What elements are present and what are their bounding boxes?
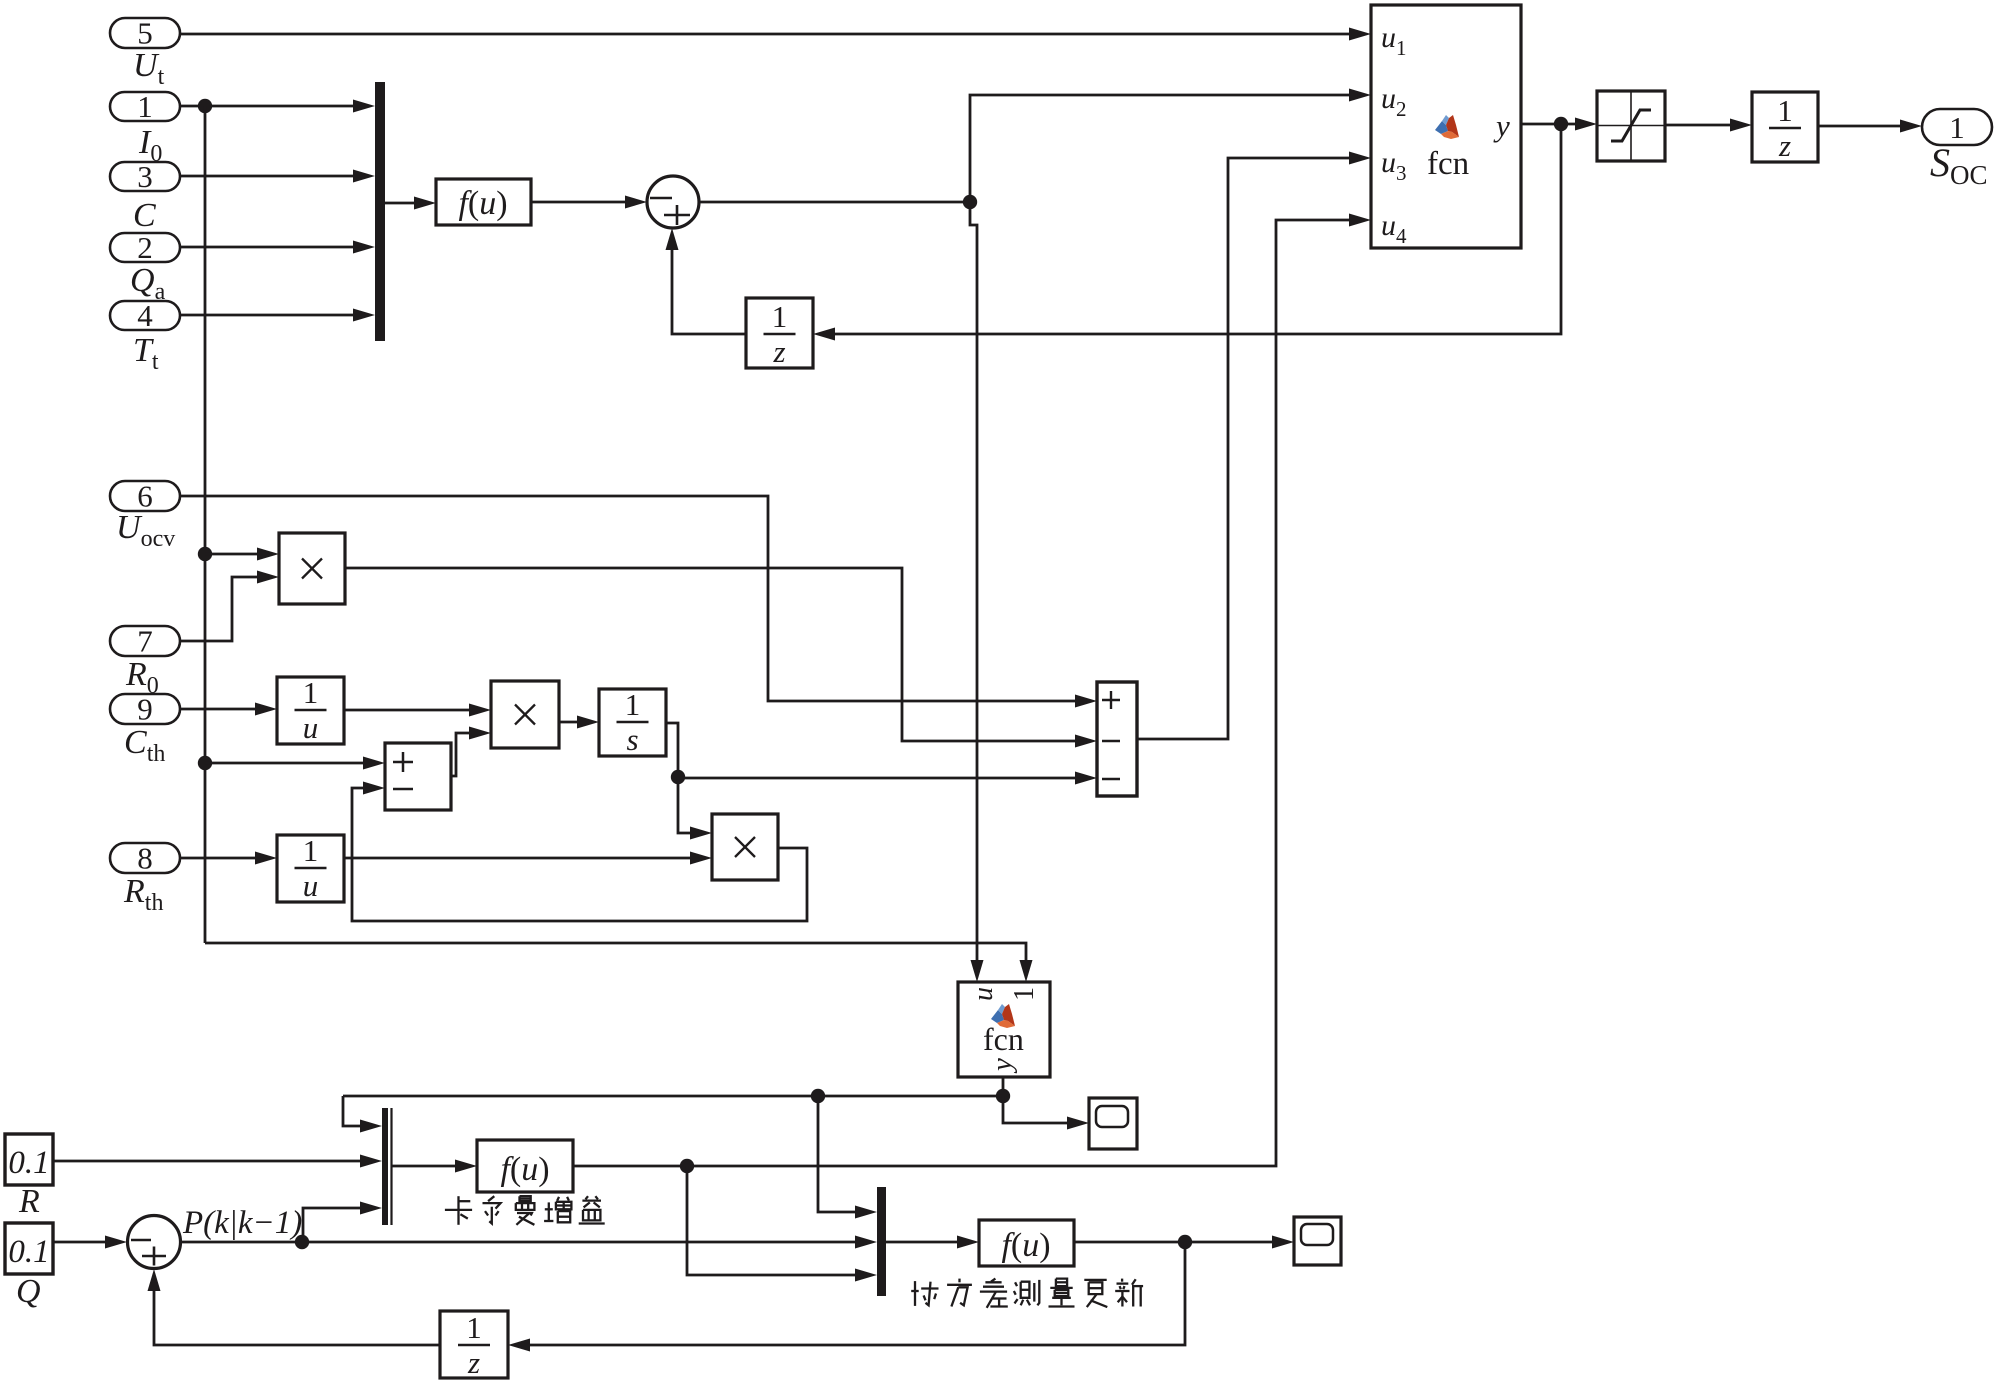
svg-text:1: 1: [137, 89, 153, 124]
svg-text:1: 1: [303, 833, 319, 868]
svg-text:8: 8: [137, 841, 153, 876]
svg-text:z: z: [772, 334, 785, 369]
svg-text:1: 1: [1777, 93, 1793, 128]
svg-text:u: u: [303, 868, 319, 903]
svg-text:7: 7: [137, 624, 153, 659]
svg-text:1: 1: [772, 299, 788, 334]
svg-text:z: z: [1778, 128, 1791, 163]
svg-text:1: 1: [1949, 110, 1965, 145]
svg-text:P(k|k−1): P(k|k−1): [182, 1205, 302, 1241]
svg-text:y: y: [1493, 108, 1510, 143]
svg-text:f(u): f(u): [500, 1151, 549, 1188]
svg-text:Q: Q: [16, 1273, 41, 1310]
svg-text:u: u: [968, 987, 999, 1001]
svg-text:4: 4: [137, 298, 153, 333]
svg-text:0.1: 0.1: [8, 1145, 49, 1181]
svg-text:s: s: [626, 722, 638, 757]
svg-text:y: y: [986, 1058, 1018, 1074]
svg-text:5: 5: [137, 16, 153, 51]
svg-text:f(u): f(u): [1001, 1227, 1050, 1264]
svg-text:f(u): f(u): [458, 185, 507, 222]
svg-text:fcn: fcn: [1427, 146, 1469, 182]
svg-text:z: z: [467, 1345, 480, 1380]
svg-text:1: 1: [466, 1310, 482, 1345]
svg-text:1: 1: [625, 687, 641, 722]
svg-text:C: C: [133, 197, 156, 234]
svg-text:2: 2: [137, 230, 153, 265]
svg-text:1: 1: [303, 675, 319, 710]
svg-text:0.1: 0.1: [8, 1234, 49, 1270]
svg-text:u: u: [303, 710, 319, 745]
svg-text:R: R: [18, 1183, 40, 1220]
svg-text:1: 1: [1009, 987, 1040, 1001]
